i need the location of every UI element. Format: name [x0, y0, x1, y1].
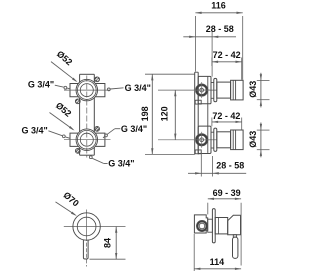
svg-text:116: 116: [211, 1, 226, 11]
dimension 72-42 bottom valve: [211, 118, 213, 127]
valve 1 right port: [95, 84, 105, 97]
dimension 120 extension lines / valve centre lines: [158, 89, 217, 91]
handle side lever neck: [233, 235, 236, 237]
dimension 84: [90, 258, 126, 260]
svg-text:Ø43: Ø43: [248, 131, 258, 148]
front view pipe centre line: [86, 76, 88, 158]
svg-text:120: 120: [160, 106, 170, 121]
svg-text:28 - 58: 28 - 58: [206, 24, 234, 34]
side valve 1 body block: [198, 76, 211, 103]
side view wall plate: [194, 72, 196, 154]
side valve 1 foot tab: [195, 100, 201, 104]
handle front centre lines: [64, 226, 126, 228]
side valve 1 neck lines: [211, 82, 214, 84]
svg-text:198: 198: [140, 106, 150, 121]
svg-text:72 - 42: 72 - 42: [213, 50, 241, 60]
side valve 1 flange capsule: [214, 78, 217, 101]
side valve 2 foot tab: [195, 150, 201, 154]
svg-text:Ø43: Ø43: [248, 81, 258, 98]
dimension 28-58 top extension line: [211, 32, 213, 77]
svg-text:G 3/4": G 3/4": [125, 83, 151, 93]
handle side cylinder: [215, 218, 228, 234]
dimension 116 extension lines: [194, 16, 196, 72]
handle side wall bracket: [194, 215, 207, 233]
handle side dome cap: [228, 215, 241, 234]
svg-text:114: 114: [210, 257, 225, 267]
svg-text:G 3/4": G 3/4": [121, 124, 147, 134]
svg-text:G 3/4": G 3/4": [22, 125, 48, 135]
valve 1 left port: [70, 84, 78, 97]
handle side body behind wall: [208, 219, 213, 232]
side valve 2 cap: [231, 130, 244, 150]
valve 2 screw top-right: [95, 126, 100, 131]
dimension 72-42 top: [211, 58, 213, 67]
valve 2 screw bottom-left: [75, 149, 80, 154]
side valve 2 flange capsule: [214, 128, 217, 151]
dimension O43 top valve: [257, 79, 270, 81]
side valve 2 body block: [198, 126, 211, 153]
svg-text:28 - 58: 28 - 58: [216, 161, 244, 171]
side view inner body line: [207, 76, 209, 152]
dimension 28-58 top: [183, 36, 236, 38]
svg-text:69 - 39: 69 - 39: [213, 188, 241, 198]
dimension 198 extension lines: [145, 73, 195, 75]
valve 1 screw top-right: [95, 77, 100, 82]
svg-text:84: 84: [103, 238, 113, 248]
dimension 28-58 bottom: [188, 172, 246, 174]
valve 2 right port: [95, 133, 105, 146]
handle side escutcheon: [212, 209, 215, 243]
front view connecting pipe: [79, 74, 81, 82]
dimension 114: [193, 234, 195, 271]
handle front circles O70: [73, 213, 100, 240]
valve 1 body circles O52: [76, 79, 98, 101]
side valve 1 screw plug: [196, 85, 207, 96]
valve 1 screw bottom-left: [75, 99, 80, 104]
dimension 198: [151, 74, 153, 154]
dimension 28-58 bottom extension lines: [200, 152, 202, 177]
side valve 2 neck lines: [211, 131, 214, 133]
side valve 2 cylinder: [217, 132, 231, 148]
valve 1 centre line: [64, 89, 111, 91]
side valve 2 screw plug: [196, 135, 207, 146]
side valve 1 cylinder: [217, 82, 231, 98]
svg-text:G 3/4": G 3/4": [108, 159, 134, 169]
dimension 116: [195, 12, 242, 14]
valve 2 left port: [70, 133, 78, 146]
valve 2 centre line: [64, 139, 111, 141]
dimension O43 bottom valve: [257, 129, 270, 131]
dimension 120: [174, 90, 176, 140]
dimension 69-39: [207, 203, 209, 215]
svg-text:72 - 42: 72 - 42: [212, 111, 240, 121]
valve 2 body circles O52: [76, 129, 98, 151]
side valve 1 cap: [231, 80, 244, 100]
svg-text:G 3/4": G 3/4": [28, 80, 54, 90]
handle front stem: [83, 240, 88, 259]
handle side screw: [197, 221, 207, 231]
handle side lever bar: [233, 237, 238, 258]
